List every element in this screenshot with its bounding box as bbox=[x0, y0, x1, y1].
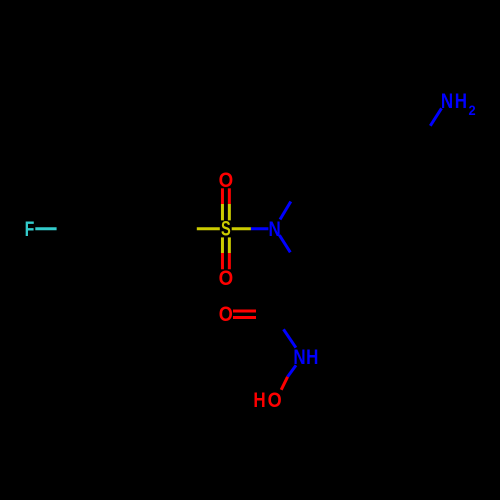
bond F-C fluorine half bbox=[35, 227, 56, 230]
bond ring C-S sulfur half bbox=[197, 227, 220, 230]
bond ring C-NH2 nitrogen half bbox=[430, 108, 441, 126]
double bond S=O top line 1 oxygen half bbox=[221, 188, 224, 204]
svg-text:N: N bbox=[441, 89, 453, 113]
double bond C=O line 1 oxygen half bbox=[233, 310, 256, 313]
bond N-CH2 up-right nitrogen half bbox=[280, 202, 291, 220]
bond N-O nitrogen half bbox=[288, 365, 296, 377]
bond C(=O)-NH nitrogen half bbox=[284, 329, 296, 347]
svg-text:O: O bbox=[219, 267, 234, 290]
svg-text:O: O bbox=[268, 389, 282, 413]
bond N-O oxygen half bbox=[281, 377, 287, 390]
double bond C=O line 2 oxygen half bbox=[233, 316, 256, 319]
svg-text:N: N bbox=[268, 217, 280, 241]
bond N-CH down-right nitrogen half bbox=[279, 235, 290, 252]
double bond S=O top line 2 oxygen half bbox=[228, 188, 231, 204]
double bond S=O top line 1 sulfur half bbox=[221, 204, 224, 220]
svg-text:S: S bbox=[221, 216, 231, 241]
double bond S=O bottom line 1 sulfur half bbox=[221, 237, 224, 253]
svg-text:O: O bbox=[219, 302, 233, 326]
double bond S=O top line 2 sulfur half bbox=[228, 204, 231, 220]
bond S-N sulfur half bbox=[232, 227, 251, 230]
svg-text:H: H bbox=[306, 345, 318, 369]
svg-text:F: F bbox=[25, 218, 35, 242]
double bond S=O bottom line 1 oxygen half bbox=[221, 253, 224, 269]
svg-text:2: 2 bbox=[469, 102, 476, 118]
bond S-N nitrogen half bbox=[251, 227, 269, 230]
double bond S=O bottom line 2 sulfur half bbox=[228, 237, 231, 253]
svg-text:O: O bbox=[219, 169, 234, 192]
double bond S=O bottom line 2 oxygen half bbox=[228, 253, 231, 269]
svg-text:H: H bbox=[253, 388, 265, 412]
svg-text:H: H bbox=[455, 89, 467, 113]
